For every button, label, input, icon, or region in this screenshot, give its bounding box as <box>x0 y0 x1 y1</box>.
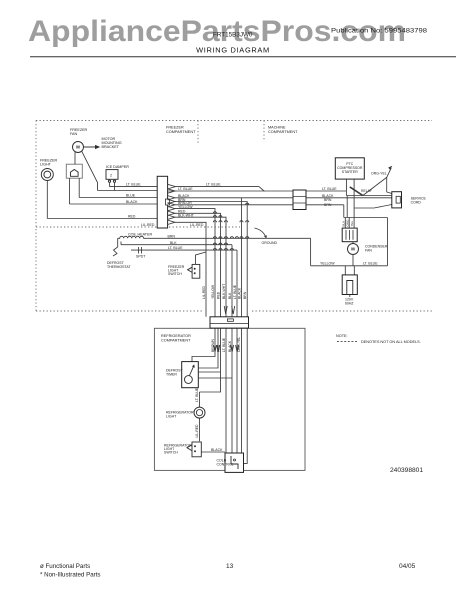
svg-text:2: 2 <box>110 174 112 178</box>
svg-text:BLACK: BLACK <box>238 287 242 299</box>
svg-text:SPDT: SPDT <box>136 255 146 259</box>
svg-text:ø Functional Parts: ø Functional Parts <box>40 563 90 570</box>
svg-text:BRN: BRN <box>168 234 176 238</box>
svg-text:COIL HEATER: COIL HEATER <box>128 233 153 237</box>
svg-text:FRT15B3JW0: FRT15B3JW0 <box>213 32 253 39</box>
svg-text:M: M <box>76 145 80 150</box>
svg-text:BLK: BLK <box>228 292 232 299</box>
svg-text:LT. BLUE: LT. BLUE <box>126 183 141 187</box>
svg-text:LIGHT: LIGHT <box>166 415 177 419</box>
svg-text:COMPARTMENT: COMPARTMENT <box>268 130 298 134</box>
svg-text:CONTROL: CONTROL <box>217 463 234 467</box>
svg-text:TIMER: TIMER <box>166 373 177 377</box>
svg-text:04/05: 04/05 <box>399 563 416 570</box>
svg-text:YELLOW: YELLOW <box>211 284 215 299</box>
svg-text:STARTER: STARTER <box>342 170 358 174</box>
svg-text:DENOTES NOT ON ALL MODELS.: DENOTES NOT ON ALL MODELS. <box>361 340 421 344</box>
svg-text:LT. BLUE: LT. BLUE <box>222 337 226 352</box>
svg-text:BRACKET: BRACKET <box>102 145 120 149</box>
svg-text:BROWN: BROWN <box>211 338 215 352</box>
svg-text:BLK-WHT: BLK-WHT <box>178 214 195 218</box>
svg-text:MACHINE: MACHINE <box>268 126 286 130</box>
svg-text:RELAY: RELAY <box>361 189 373 193</box>
svg-text:LIL-RED: LIL-RED <box>190 223 204 227</box>
svg-text:240398801: 240398801 <box>390 467 423 474</box>
svg-text:ORG-YEL: ORG-YEL <box>237 337 241 352</box>
svg-text:SWITCH: SWITCH <box>164 451 178 455</box>
svg-text:LIL-RED: LIL-RED <box>195 424 199 438</box>
svg-text:ORG-YEL: ORG-YEL <box>371 172 387 176</box>
svg-text:SWITCH: SWITCH <box>168 272 182 276</box>
svg-text:COMPARTMENT: COMPARTMENT <box>166 130 196 134</box>
svg-text:LT. BLUE: LT. BLUE <box>363 261 378 265</box>
svg-text:LIGHT: LIGHT <box>40 163 52 167</box>
svg-text:REFRIGERATOR: REFRIGERATOR <box>161 334 191 338</box>
svg-text:BLK-WHT: BLK-WHT <box>222 284 226 299</box>
svg-text:THERMOSTAT: THERMOSTAT <box>107 265 131 269</box>
svg-text:COMPARTMENT: COMPARTMENT <box>161 339 191 343</box>
svg-text:FAN: FAN <box>365 249 372 253</box>
svg-text:RED: RED <box>217 291 221 299</box>
svg-text:BLACK: BLACK <box>126 200 138 204</box>
svg-text:GROUND: GROUND <box>262 241 278 245</box>
svg-text:LT. BLUE: LT. BLUE <box>168 246 183 250</box>
svg-text:FREEZER: FREEZER <box>166 126 184 130</box>
svg-text:LT. BLUE: LT. BLUE <box>233 284 237 299</box>
svg-text:13: 13 <box>226 563 234 570</box>
svg-text:YELLOW: YELLOW <box>178 205 193 209</box>
svg-text:RED: RED <box>128 214 136 218</box>
svg-text:60HZ: 60HZ <box>345 302 354 306</box>
svg-text:WIRING DIAGRAM: WIRING DIAGRAM <box>196 45 270 54</box>
svg-text:Publication No: 5995483798: Publication No: 5995483798 <box>331 28 428 35</box>
svg-text:BLACK: BLACK <box>211 448 223 452</box>
svg-text:LT. BLUE: LT. BLUE <box>178 187 193 191</box>
svg-text:FAN: FAN <box>70 132 78 136</box>
svg-text:BLUE: BLUE <box>126 194 136 198</box>
svg-text:LT. BLUE: LT. BLUE <box>206 183 221 187</box>
svg-text:YEL: YEL <box>350 220 354 226</box>
svg-text:M: M <box>351 247 355 252</box>
svg-text:CORD: CORD <box>411 201 422 205</box>
svg-text:BLACK: BLACK <box>228 340 232 352</box>
svg-text:* Non-Illustrated Parts: * Non-Illustrated Parts <box>40 572 101 579</box>
svg-text:LT. BLUE: LT. BLUE <box>195 387 199 402</box>
svg-text:LIL-RED: LIL-RED <box>202 285 206 299</box>
svg-text:ICE DAMPER: ICE DAMPER <box>106 165 129 169</box>
svg-text:NOTE:: NOTE: <box>336 334 348 338</box>
svg-text:BRN: BRN <box>243 291 247 299</box>
svg-text:LIL-RED: LIL-RED <box>141 223 155 227</box>
svg-text:BRN: BRN <box>324 198 332 202</box>
svg-text:BLK: BLK <box>170 241 177 245</box>
svg-text:YELLOW: YELLOW <box>320 261 335 265</box>
